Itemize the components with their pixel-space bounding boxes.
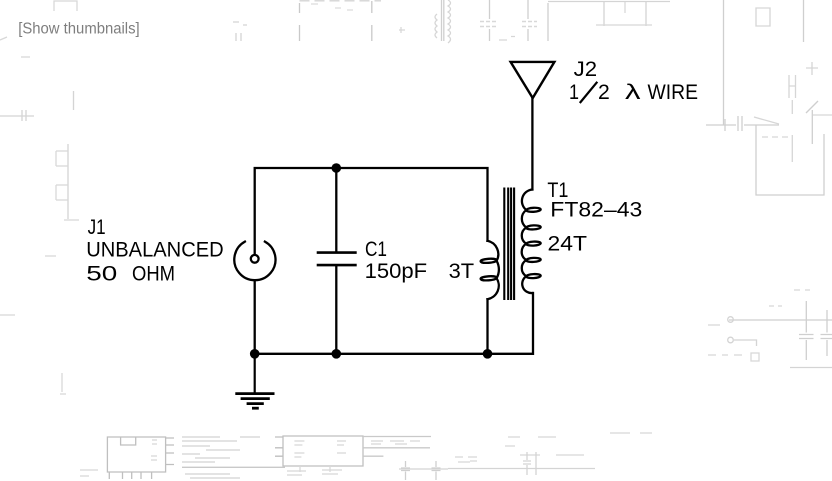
top-center ghost box: [300, 0, 382, 2]
transformer T1 core: [504, 189, 514, 300]
transformer T1 primary winding (3T): [488, 241, 499, 299]
bottom-left ghost IC box 2: [275, 436, 363, 475]
top-right ghost cluster: [604, 2, 646, 26]
wire: C1 bottom lead: [335, 266, 337, 354]
wire: J1 top branch and top wire to T1 primary: [255, 168, 488, 255]
junction dots: [250, 163, 492, 358]
node: J1 bottom junction: [250, 349, 260, 359]
node: C1 bottom junction: [332, 349, 342, 359]
ghost vertical wires top: [489, 0, 491, 41]
wire: J1 bottom lead: [254, 281, 256, 354]
svg-text:[Show thumbnails]: [Show thumbnails]: [18, 20, 140, 37]
svg-text:J1: J1: [88, 215, 106, 239]
svg-text:1: 1: [569, 80, 579, 104]
bottom ghost wire rows 1: [182, 437, 285, 478]
connector J1 center pin: [251, 255, 259, 263]
svg-text:50: 50: [86, 261, 117, 285]
svg-text:24T: 24T: [548, 232, 588, 256]
label 1/2 slash stroke: [580, 82, 598, 103]
right lower ghost cluster: [729, 319, 832, 321]
antenna J2 symbol: [511, 62, 555, 98]
connector J1 body: [234, 242, 275, 281]
top-center ghost transformer: [442, 0, 444, 41]
svg-text:FT82–43: FT82–43: [550, 197, 642, 221]
node: C1 top junction: [332, 163, 342, 173]
node: T1 primary bottom junction: [483, 349, 493, 359]
T1 primary crossover loops: [480, 258, 496, 263]
left side ghost marks: [0, 110, 34, 121]
svg-text:3T: 3T: [449, 259, 475, 283]
bottom ghost capacitors: [401, 461, 410, 480]
T1 secondary crossover loops: [526, 207, 541, 212]
svg-text:J2: J2: [574, 57, 598, 81]
svg-text:C1: C1: [365, 237, 387, 261]
wire: T1 primary bottom lead: [486, 299, 488, 354]
ground symbol: [235, 354, 274, 408]
wire: bottom bus and T1 secondary bottom lead: [255, 293, 533, 354]
transformer T1 secondary winding (24T): [522, 190, 533, 294]
bottom-center ghost marks: [505, 437, 584, 455]
ghost text rows: [480, 22, 537, 27]
svg-text:2: 2: [598, 80, 610, 104]
ghost bus line right: [706, 124, 779, 126]
wire: antenna lead: [531, 98, 533, 190]
svg-text:λ: λ: [625, 80, 641, 104]
right middle ghost box: [756, 125, 824, 195]
bottom-left ghost IC box 1: [107, 437, 174, 479]
bottom ghost wires right of box 2: [363, 436, 431, 438]
svg-text:WIRE: WIRE: [648, 80, 699, 104]
main schematic: [234, 62, 554, 408]
top-left ghost marks: [54, 1, 77, 11]
capacitor C1 plates: [318, 251, 355, 254]
svg-text:OHM: OHM: [132, 261, 175, 285]
svg-text:150pF: 150pF: [365, 259, 428, 283]
long ghost vertical right: [723, 0, 725, 125]
wire: C1 top lead: [335, 168, 337, 251]
svg-text:UNBALANCED: UNBALANCED: [86, 238, 224, 262]
